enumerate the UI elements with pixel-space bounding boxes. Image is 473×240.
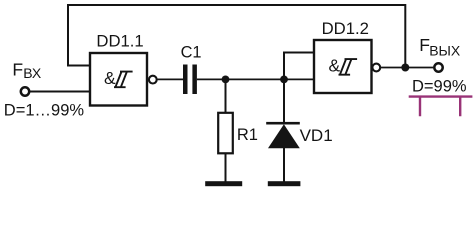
wire junction B up to DD1.2 upper input (284, 53, 314, 80)
wire junction A down to R1 (225, 79, 227, 113)
node DD1.2 output bubble (372, 64, 380, 72)
resistor R1 (218, 113, 258, 154)
op-amp U1: logic gate DD1.1 (Schmitt NAND) (90, 53, 147, 106)
svg-text:R1: R1 (237, 126, 258, 144)
output terminal Fвых (419, 35, 461, 72)
capacitor C1 (181, 44, 202, 94)
waveform icon (output duty cycle) (409, 97, 473, 117)
diode VD1 (cathode up) (266, 122, 332, 148)
wire R1 to ground (225, 153, 227, 182)
svg-text:&: & (328, 56, 340, 76)
svg-text:ВЫХ: ВЫХ (429, 43, 461, 59)
wire C1 to DD1.2 lower input (197, 78, 314, 80)
wire feedback loop from DD1.2 output to DD1.1 upper input (68, 5, 405, 68)
wire junction B down to VD1 (283, 79, 285, 123)
svg-text:F: F (12, 60, 23, 80)
svg-text:DD1.1: DD1.1 (96, 32, 143, 51)
ground (under R1) (205, 181, 242, 186)
input terminal Fвх (12, 60, 42, 96)
svg-text:D=99%: D=99% (412, 78, 467, 96)
svg-text:C1: C1 (181, 44, 202, 62)
wire DD1.1 upper input stub (67, 65, 90, 67)
svg-text:VD1: VD1 (300, 126, 333, 145)
wire DD1.2 output to Fвых terminal (380, 67, 433, 69)
node DD1.1 output bubble (149, 76, 157, 84)
svg-text:&: & (104, 68, 116, 88)
wire from Fвх to DD1.1 lower input (30, 91, 90, 93)
svg-text:ВХ: ВХ (23, 65, 42, 81)
svg-text:D=1…99%: D=1…99% (4, 102, 85, 120)
node junction A (R1 tap) (222, 76, 230, 84)
node output junction (feedback tap) (401, 64, 409, 72)
op-amp U2: logic gate DD1.2 (Schmitt NAND) (314, 40, 372, 93)
node junction B (VD1 tap) (280, 76, 288, 84)
wire VD1 to ground (283, 147, 285, 182)
ground (under VD1) (268, 181, 301, 186)
svg-text:DD1.2: DD1.2 (322, 19, 369, 38)
wire DD1.1 output to C1 (157, 78, 183, 80)
